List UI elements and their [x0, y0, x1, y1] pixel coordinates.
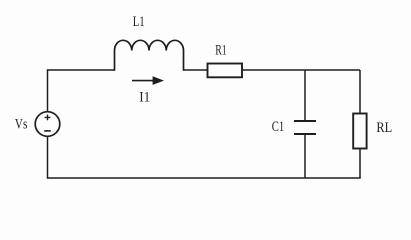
- voltage source Vs: [35, 112, 60, 137]
- svg-text:L1: L1: [133, 14, 145, 30]
- plus sign: [45, 115, 51, 121]
- wire RL bottom: [359, 149, 361, 179]
- wire top-left horizontal: [47, 69, 115, 71]
- inductor L1: [115, 40, 184, 70]
- capacitor C1 bottom wire: [304, 134, 306, 178]
- minus sign: [44, 130, 51, 132]
- wire top-left vertical (source top to top rail): [47, 70, 49, 112]
- resistor RL: [353, 114, 366, 149]
- svg-text:C1: C1: [272, 119, 284, 135]
- wire inductor to R1: [184, 69, 208, 71]
- arrow I1: [132, 80, 154, 82]
- capacitor C1 plates: [294, 120, 316, 122]
- svg-text:I1: I1: [139, 90, 150, 106]
- capacitor C1 top wire: [304, 70, 306, 121]
- svg-text:RL: RL: [376, 120, 392, 136]
- bottom wire: [47, 177, 361, 179]
- wire R1 to right corner: [242, 69, 360, 71]
- resistor R1: [208, 64, 243, 78]
- svg-text:R1: R1: [215, 42, 227, 58]
- svg-text:Vs: Vs: [15, 116, 28, 132]
- wire right vertical to RL: [359, 70, 361, 114]
- wire source bottom: [47, 136, 49, 178]
